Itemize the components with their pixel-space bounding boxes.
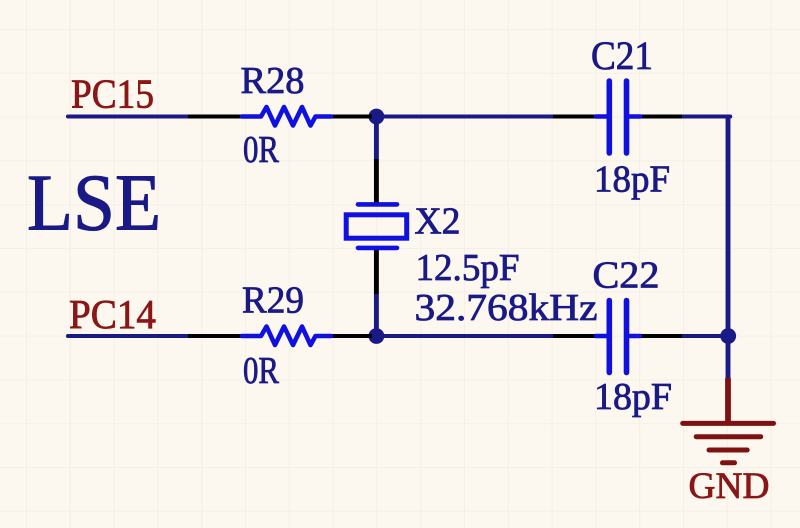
svg-text:C21: C21: [591, 33, 653, 78]
svg-text:12.5pF: 12.5pF: [416, 247, 520, 289]
svg-text:18pF: 18pF: [594, 376, 672, 418]
svg-text:0R: 0R: [243, 129, 280, 171]
svg-text:R29: R29: [242, 279, 304, 321]
svg-text:R28: R28: [241, 60, 305, 102]
svg-text:0R: 0R: [243, 350, 280, 392]
svg-text:32.768kHz: 32.768kHz: [415, 287, 598, 329]
svg-text:GND: GND: [689, 466, 770, 507]
svg-text:LSE: LSE: [27, 158, 161, 248]
svg-text:PC14: PC14: [69, 291, 156, 337]
svg-text:X2: X2: [415, 201, 461, 243]
svg-text:PC15: PC15: [71, 71, 154, 117]
svg-text:18pF: 18pF: [594, 158, 670, 200]
svg-text:C22: C22: [593, 255, 660, 297]
